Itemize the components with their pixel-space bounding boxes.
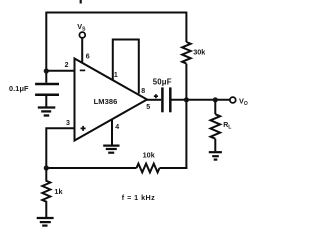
resistor R2 10k [137, 164, 160, 173]
capacitor C2 50uF [162, 87, 170, 112]
resistor RL [211, 114, 221, 139]
wire RL to ground [214, 139, 216, 152]
node D junction dot [44, 165, 49, 170]
node B junction dot [184, 97, 189, 102]
output terminal VO circle [230, 97, 236, 103]
wire gain loop pins 1-8 [113, 40, 139, 94]
wire pin6 supply [81, 38, 83, 64]
svg-text:30k: 30k [193, 48, 206, 57]
wire RL branch [214, 100, 216, 114]
svg-text:10k: 10k [143, 151, 156, 160]
svg-text:50μF: 50μF [153, 77, 172, 86]
wire output pin5 [146, 99, 161, 101]
node A junction dot [44, 68, 49, 73]
wire right rail lower [185, 64, 187, 169]
inverting input minus sign [80, 69, 85, 71]
resistor R1 30k [182, 42, 191, 64]
wire right rail upper [185, 12, 187, 42]
capacitor C1 0.1uF [35, 84, 59, 95]
wire C1 to ground [45, 96, 47, 107]
wire pin4 [111, 119, 113, 146]
svg-text:4: 4 [115, 124, 119, 131]
node C junction dot [213, 97, 218, 102]
power terminal VS circle [79, 32, 85, 38]
svg-text:2: 2 [65, 62, 69, 69]
wire output to VO [172, 99, 231, 101]
ground under RL [209, 152, 222, 159]
svg-text:f = 1 kHz: f = 1 kHz [122, 193, 155, 202]
ground under R3 [37, 218, 54, 226]
resistor R3 1k [42, 168, 50, 217]
non-inverting input plus sign [81, 126, 86, 131]
svg-text:LM386: LM386 [94, 97, 118, 106]
svg-text:3: 3 [66, 120, 70, 127]
wire bottom rail left [46, 167, 136, 169]
ground under C1 [38, 108, 56, 116]
wire pin2 [46, 70, 75, 72]
svg-text:1k: 1k [54, 187, 63, 196]
wire pin3 feedback [46, 128, 75, 169]
capacitor C2 polarity plus [154, 94, 158, 98]
svg-text:1: 1 [114, 72, 118, 79]
svg-text:6: 6 [86, 53, 90, 60]
wire left rail [45, 12, 47, 83]
op-amp U1 LM386 triangle [75, 59, 148, 141]
ground under pin4 [103, 146, 119, 153]
svg-text:0.1μF: 0.1μF [9, 84, 29, 93]
svg-text:5: 5 [146, 104, 150, 111]
wire top rail [46, 12, 186, 14]
svg-text:8: 8 [141, 88, 145, 95]
wire bottom rail right [160, 167, 188, 169]
top crop tick [80, 0, 82, 4]
